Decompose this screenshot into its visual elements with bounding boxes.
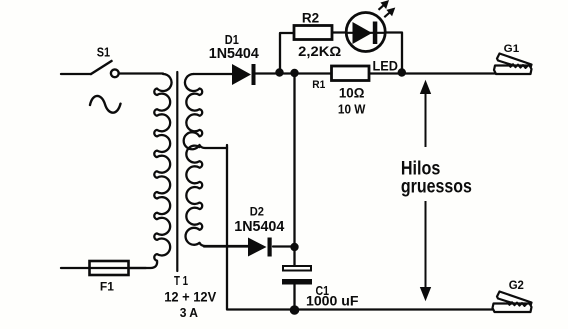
svg-text:12 + 12V: 12 + 12V — [164, 289, 217, 305]
svg-text:R2: R2 — [302, 10, 319, 25]
svg-text:LED: LED — [373, 58, 399, 73]
svg-text:1N5404: 1N5404 — [209, 46, 259, 62]
svg-text:10 W: 10 W — [338, 103, 366, 117]
svg-text:D2: D2 — [250, 204, 264, 218]
svg-text:1N5404: 1N5404 — [234, 219, 284, 235]
svg-text:3 A: 3 A — [180, 305, 199, 320]
svg-text:S1: S1 — [97, 46, 110, 60]
svg-text:D1: D1 — [225, 32, 239, 47]
svg-text:R1: R1 — [312, 79, 325, 91]
svg-text:gruessos: gruessos — [401, 177, 472, 198]
svg-text:1000 uF: 1000 uF — [306, 293, 359, 309]
svg-text:G1: G1 — [504, 43, 520, 55]
svg-text:F1: F1 — [100, 280, 114, 294]
svg-text:2,2KΩ: 2,2KΩ — [298, 43, 341, 59]
svg-text:T 1: T 1 — [174, 273, 188, 288]
svg-text:G2: G2 — [509, 280, 524, 292]
svg-text:10Ω: 10Ω — [339, 85, 365, 101]
